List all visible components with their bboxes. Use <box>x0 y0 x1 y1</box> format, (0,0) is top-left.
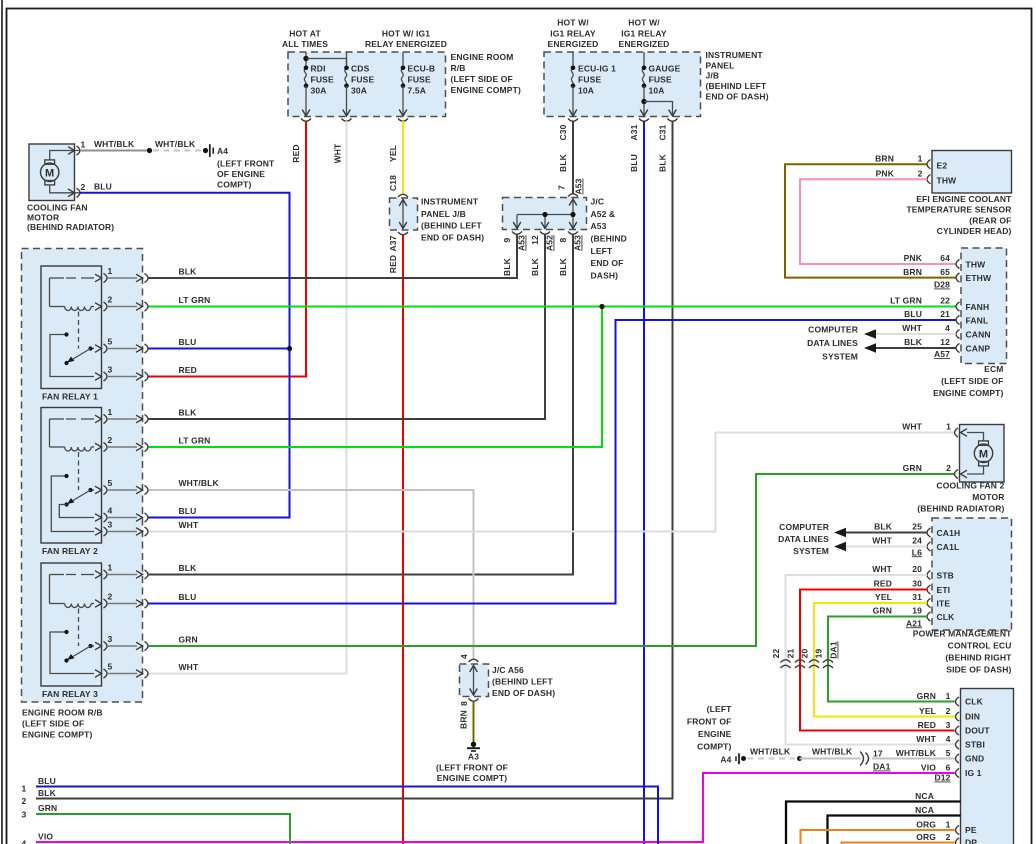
svg-text:R/B: R/B <box>451 63 466 73</box>
svg-text:GRN: GRN <box>179 635 198 645</box>
svg-text:WHT: WHT <box>872 536 892 546</box>
svg-text:RED: RED <box>291 144 301 162</box>
wire WHT CANN <box>876 333 956 335</box>
motor pin 1 connector <box>68 147 75 155</box>
svg-text:65: 65 <box>940 267 950 277</box>
svg-text:RED: RED <box>918 720 936 730</box>
svg-text:SIDE OF DASH): SIDE OF DASH) <box>946 665 1011 675</box>
svg-text:BRN: BRN <box>875 154 894 164</box>
svg-text:ENGINE COMPT): ENGINE COMPT) <box>437 773 507 783</box>
svg-text:12: 12 <box>940 337 950 347</box>
svg-text:TEMPERATURE SENSOR: TEMPERATURE SENSOR <box>906 205 1011 215</box>
wire WHT/BLK motor pin 1 to splice <box>80 150 150 152</box>
ground splice A4 (top) <box>203 148 208 153</box>
svg-text:FUSE: FUSE <box>311 75 334 85</box>
svg-text:EFI ENGINE COOLANT: EFI ENGINE COOLANT <box>916 194 1012 204</box>
svg-text:GAUGE: GAUGE <box>649 64 681 74</box>
svg-text:CLK: CLK <box>937 612 956 622</box>
wire BLU fan relay 1 pin 5 <box>149 348 290 350</box>
svg-text:MOTOR: MOTOR <box>27 212 59 222</box>
svg-text:WHT: WHT <box>872 564 892 574</box>
connector A37 cup <box>398 232 408 235</box>
svg-text:BLU: BLU <box>94 182 112 192</box>
wire RDI-CDS branch <box>306 59 347 68</box>
svg-text:2: 2 <box>946 463 951 473</box>
svg-text:MOTOR: MOTOR <box>972 492 1004 502</box>
svg-text:GRN: GRN <box>903 463 922 473</box>
svg-text:FANL: FANL <box>966 315 989 325</box>
svg-text:COMPT): COMPT) <box>217 179 251 189</box>
svg-text:DATA LINES: DATA LINES <box>807 338 858 348</box>
svg-text:IG1 RELAY: IG1 RELAY <box>550 28 596 38</box>
svg-text:PNK: PNK <box>904 253 923 263</box>
svg-text:PNK: PNK <box>876 169 895 179</box>
svg-text:C31: C31 <box>658 124 668 140</box>
svg-text:END OF DASH): END OF DASH) <box>492 688 555 698</box>
svg-text:COOLING FAN 2: COOLING FAN 2 <box>936 481 1004 491</box>
svg-text:GRN: GRN <box>917 691 936 701</box>
fuse CDS 30A <box>346 52 348 68</box>
svg-text:ECU-B: ECU-B <box>408 64 436 74</box>
svg-text:2: 2 <box>946 706 951 716</box>
svg-text:ENERGIZED: ENERGIZED <box>619 39 670 49</box>
svg-text:64: 64 <box>940 253 950 263</box>
svg-text:FUSE: FUSE <box>578 75 601 85</box>
svg-text:1: 1 <box>946 820 951 830</box>
junction connector J/C A52 & A53 <box>503 198 587 230</box>
wire WHT CA1L <box>846 546 927 548</box>
svg-text:SYSTEM: SYSTEM <box>793 546 829 556</box>
fuse RDI 30A <box>305 52 307 68</box>
svg-text:ITE: ITE <box>937 598 951 608</box>
inline connector 17 DA1 <box>860 752 864 766</box>
wire BLK C31 from GAUGE fuse to left edge row 2 <box>36 121 673 799</box>
svg-text:D28: D28 <box>934 280 950 290</box>
svg-text:(REAR OF: (REAR OF <box>969 215 1011 225</box>
svg-text:30: 30 <box>912 579 922 589</box>
svg-text:CONTROL ECU: CONTROL ECU <box>948 641 1012 651</box>
svg-text:END OF: END OF <box>591 258 624 268</box>
svg-text:BLU: BLU <box>179 337 197 347</box>
svg-text:E2: E2 <box>937 161 948 171</box>
svg-text:LT GRN: LT GRN <box>179 436 211 446</box>
svg-text:FRONT OF: FRONT OF <box>687 717 732 727</box>
wire BLU fan relay 3 pin 2 to ECM FANL <box>149 320 957 604</box>
svg-text:WHT/BLK: WHT/BLK <box>896 748 937 758</box>
svg-text:DIN: DIN <box>965 712 980 722</box>
svg-text:BLU: BLU <box>179 592 197 602</box>
svg-text:WHT: WHT <box>902 323 922 333</box>
svg-text:CYLINDER HEAD): CYLINDER HEAD) <box>937 226 1012 236</box>
svg-text:1: 1 <box>108 266 113 276</box>
ECM pin 64 THW <box>956 259 960 268</box>
wire WHT/BLK connector 17 to D12 GND <box>872 758 955 760</box>
svg-text:WHT: WHT <box>333 143 343 163</box>
svg-text:1: 1 <box>946 422 951 432</box>
wire BLU A31 from GAUGE fuse to page bottom <box>643 121 645 844</box>
svg-text:5: 5 <box>108 478 113 488</box>
svg-text:4: 4 <box>22 839 27 844</box>
svg-text:VIO: VIO <box>38 832 53 842</box>
svg-text:LT GRN: LT GRN <box>890 296 922 306</box>
svg-text:DA1: DA1 <box>873 762 891 772</box>
wire BRN J/C A56 to ground A3 <box>473 701 475 742</box>
svg-text:21: 21 <box>940 309 950 319</box>
svg-text:2: 2 <box>108 592 113 602</box>
svg-text:WHT: WHT <box>179 662 199 672</box>
D12 pin 2 DP <box>956 838 960 844</box>
svg-text:YEL: YEL <box>919 706 936 716</box>
sensor EFI ENGINE COOLANT TEMPERATURE SENSOR box <box>932 151 1012 194</box>
svg-text:20: 20 <box>800 649 810 659</box>
svg-text:4: 4 <box>108 506 113 516</box>
motor COOLING FAN 2 MOTOR box <box>960 425 1005 483</box>
svg-text:7: 7 <box>557 185 567 190</box>
svg-text:BLU: BLU <box>38 776 56 786</box>
svg-text:PANEL: PANEL <box>706 60 735 70</box>
svg-text:HOT W/ IG1: HOT W/ IG1 <box>382 29 430 39</box>
svg-text:5: 5 <box>946 748 951 758</box>
svg-text:BLU: BLU <box>629 154 639 172</box>
svg-text:9: 9 <box>502 237 512 242</box>
wire BLK NCA row 2 <box>828 816 961 844</box>
svg-text:1: 1 <box>81 140 86 150</box>
svg-text:BRN: BRN <box>903 267 922 277</box>
svg-text:FUSE: FUSE <box>408 75 431 85</box>
svg-text:ENGINE ROOM R/B: ENGINE ROOM R/B <box>22 708 103 718</box>
svg-text:ECM: ECM <box>984 364 1003 374</box>
wire BLK NCA row 1 <box>786 802 961 844</box>
motor pin 2 connector <box>68 189 75 197</box>
svg-text:CANP: CANP <box>966 343 991 353</box>
svg-text:NCA: NCA <box>915 791 934 801</box>
svg-text:BLK: BLK <box>558 257 568 276</box>
D12 pin 3 DOUT <box>956 726 960 735</box>
svg-text:J/C A56: J/C A56 <box>492 665 524 675</box>
svg-text:THW: THW <box>937 176 958 186</box>
svg-text:WHT/BLK: WHT/BLK <box>94 139 135 149</box>
wire YEL ITE to connector 20 and pin 2 DIN <box>814 603 955 717</box>
node J/C dot 2 <box>570 212 575 217</box>
svg-text:HOT W/: HOT W/ <box>628 18 660 28</box>
svg-text:GRN: GRN <box>38 803 57 813</box>
svg-text:A4: A4 <box>720 754 731 764</box>
svg-text:J/C: J/C <box>591 197 605 207</box>
svg-text:IG 1: IG 1 <box>965 768 982 778</box>
svg-text:WHT/BLK: WHT/BLK <box>179 478 220 488</box>
arrow to computer data lines (CANN) <box>864 329 876 339</box>
D12 pin 6 IG 1 <box>956 768 960 777</box>
svg-text:19: 19 <box>814 649 824 659</box>
svg-text:22: 22 <box>940 296 950 306</box>
ECM pin 12 CANP <box>956 343 960 352</box>
svg-text:HOT AT: HOT AT <box>289 29 321 39</box>
svg-text:RDI: RDI <box>311 64 326 74</box>
wire WHT/BLK dashed to A4 <box>153 150 203 152</box>
svg-text:DATA LINES: DATA LINES <box>778 534 829 544</box>
PM ECU pin 24 CA1L <box>927 542 931 551</box>
svg-text:2: 2 <box>108 435 113 445</box>
svg-text:31: 31 <box>912 592 922 602</box>
svg-text:30A: 30A <box>311 86 327 96</box>
svg-text:12: 12 <box>530 235 540 245</box>
svg-text:M: M <box>979 448 988 460</box>
svg-text:OF ENGINE: OF ENGINE <box>217 169 265 179</box>
node splice WHT/BLK <box>147 148 152 153</box>
arrow to computer data lines (CA1H) <box>834 528 846 538</box>
ground A3 <box>471 742 476 747</box>
wire WHT/BLK dashed from A4 to splice <box>748 758 796 760</box>
svg-text:A21: A21 <box>906 618 922 628</box>
svg-text:NCA: NCA <box>915 805 934 815</box>
svg-text:VIO: VIO <box>921 763 936 773</box>
svg-text:1: 1 <box>108 563 113 573</box>
fuse block INSTRUMENT PANEL J/B (top) <box>544 52 701 117</box>
svg-text:2: 2 <box>22 796 27 806</box>
svg-text:RELAY ENERGIZED: RELAY ENERGIZED <box>365 39 447 49</box>
svg-text:2: 2 <box>81 182 86 192</box>
svg-text:19: 19 <box>912 606 922 616</box>
svg-text:A57: A57 <box>934 349 950 359</box>
svg-text:(BEHIND RADIATOR): (BEHIND RADIATOR) <box>917 503 1004 513</box>
svg-text:WHT/BLK: WHT/BLK <box>750 747 791 757</box>
svg-text:(LEFT SIDE OF: (LEFT SIDE OF <box>451 74 513 84</box>
PM ECU pin 25 CA1H <box>927 528 931 537</box>
svg-text:C18: C18 <box>388 175 398 191</box>
svg-text:ORG: ORG <box>916 832 936 842</box>
wire RED ETI to connector 21 and pin 3 DOUT <box>800 590 955 731</box>
svg-text:ALL TIMES: ALL TIMES <box>282 39 328 49</box>
svg-text:(BEHIND RADIATOR): (BEHIND RADIATOR) <box>27 222 114 232</box>
wire LT GRN branch to fan relay 2 pin 2 <box>149 307 603 448</box>
wire GRN CLK to connector 19 and pin 1 CLK <box>828 617 955 702</box>
D12 pin 1 PE <box>956 825 960 834</box>
svg-text:THW: THW <box>966 259 987 269</box>
svg-text:(LEFT FRONT OF: (LEFT FRONT OF <box>436 762 508 772</box>
svg-text:(BEHIND: (BEHIND <box>591 234 627 244</box>
PM ECU pin 30 ETI <box>927 585 931 594</box>
svg-text:WHT/BLK: WHT/BLK <box>812 747 853 757</box>
wire BLK J/C pin 9 to fan relay 1 pin 1 <box>149 234 518 278</box>
relay block ENGINE ROOM R/B dashed box <box>22 249 143 703</box>
fuse block ENGINE ROOM R/B (top) <box>288 52 446 117</box>
node junction under GAUGE fuse <box>641 99 646 104</box>
svg-text:DA1: DA1 <box>829 641 839 659</box>
D12 pin 5 GND <box>956 754 960 763</box>
PM ECU pin 20 STB <box>927 570 931 579</box>
svg-text:3: 3 <box>22 810 27 820</box>
svg-text:20: 20 <box>912 564 922 574</box>
ECM pin 65 ETHW <box>956 273 960 282</box>
svg-text:INSTRUMENT: INSTRUMENT <box>706 50 764 60</box>
svg-text:(LEFT: (LEFT <box>707 704 732 714</box>
svg-text:C30: C30 <box>558 124 568 140</box>
svg-text:POWER MANAGEMENT: POWER MANAGEMENT <box>913 629 1012 639</box>
wire WHT STB to connector 22 and pin 4 STBI <box>786 575 955 745</box>
svg-text:BLK: BLK <box>179 267 198 277</box>
connector cups under J/C A52 & A53 <box>512 232 522 235</box>
svg-text:4: 4 <box>945 323 950 333</box>
PM ECU pin 19 CLK <box>927 612 931 621</box>
svg-text:21: 21 <box>786 649 796 659</box>
svg-text:A31: A31 <box>629 124 639 140</box>
svg-text:CLK: CLK <box>965 697 984 707</box>
svg-text:DASH): DASH) <box>591 271 619 281</box>
svg-text:PANEL J/B: PANEL J/B <box>421 209 466 219</box>
wire BLK C30 from ECU-IG 1 fuse to J/C A53 pin 7 <box>572 121 574 194</box>
svg-text:(LEFT SIDE OF: (LEFT SIDE OF <box>22 719 84 729</box>
connector pin 7 A53 dome <box>568 194 578 197</box>
connector D12 box <box>961 689 1014 844</box>
svg-text:WHT: WHT <box>902 422 922 432</box>
D12 pin 4 STBI <box>956 740 960 749</box>
svg-text:ORG: ORG <box>916 820 936 830</box>
wire YEL from ECU-B fuse to C18 <box>402 121 404 194</box>
svg-text:GND: GND <box>965 754 984 764</box>
svg-text:COMPUTER: COMPUTER <box>808 325 858 335</box>
junction connector J/C A56 <box>469 659 479 662</box>
svg-text:WHT/BLK: WHT/BLK <box>155 139 196 149</box>
wire ORG D12 PE <box>801 830 955 844</box>
svg-text:3: 3 <box>946 720 951 730</box>
svg-text:YEL: YEL <box>388 145 398 162</box>
wire GRN fan relay 3 pin 3 to cooling fan 2 pin 2 <box>149 474 956 646</box>
svg-text:COOLING FAN: COOLING FAN <box>27 203 88 213</box>
wire BLK CA1H <box>846 532 927 534</box>
svg-text:A4: A4 <box>217 146 228 156</box>
svg-text:10A: 10A <box>649 86 665 96</box>
sensor pin 2 THW <box>927 175 931 184</box>
wire BRN sensor E2 to ECM ETHW <box>785 164 956 277</box>
svg-text:CDS: CDS <box>351 64 370 74</box>
svg-text:GRN: GRN <box>873 606 892 616</box>
fuse ECU-IG 1 10A <box>572 52 574 68</box>
svg-text:ENERGIZED: ENERGIZED <box>548 39 599 49</box>
wire WHT/BLK fan relay 2 pin 5 to J/C A56 <box>149 490 474 659</box>
svg-text:(LEFT FRONT: (LEFT FRONT <box>217 158 275 168</box>
svg-text:4: 4 <box>946 734 951 744</box>
svg-text:BLK: BLK <box>558 153 568 172</box>
svg-text:DP: DP <box>965 838 977 844</box>
svg-text:L6: L6 <box>912 547 922 557</box>
wire WHT from CDS fuse to fan relay 3 pin 5 <box>149 121 347 674</box>
wire WHT/BLK splice to connector 17 <box>800 758 862 760</box>
connector C18 dome <box>398 194 408 197</box>
motor 2 pin 1 connector <box>961 429 968 437</box>
svg-text:25: 25 <box>912 522 922 532</box>
svg-text:STBI: STBI <box>965 740 985 750</box>
svg-text:22: 22 <box>771 649 781 659</box>
svg-text:BRN: BRN <box>459 710 469 729</box>
svg-text:2: 2 <box>108 295 113 305</box>
svg-text:A53: A53 <box>574 178 584 194</box>
relay FAN RELAY 2 <box>41 408 102 544</box>
svg-text:BLK: BLK <box>904 337 923 347</box>
svg-text:(BEHIND RIGHT: (BEHIND RIGHT <box>945 653 1012 663</box>
fuse ECU-B 7.5A <box>402 52 404 68</box>
PM ECU pin 31 ITE <box>927 598 931 607</box>
svg-text:BLK: BLK <box>874 522 893 532</box>
svg-text:CANN: CANN <box>966 329 991 339</box>
wire LT GRN fan relay 1 pin 2 to ECM FANH <box>149 306 957 308</box>
svg-text:1: 1 <box>946 691 951 701</box>
wire BLK J/C pin 8 to fan relay 3 pin 1 <box>149 234 574 575</box>
svg-text:FUSE: FUSE <box>649 75 672 85</box>
svg-text:4: 4 <box>459 654 469 659</box>
wire WHT fan relay 2 pin 3 to cooling fan 2 pin 1 <box>149 433 956 532</box>
svg-text:6: 6 <box>946 763 951 773</box>
wire RED from RDI fuse to fan relay 1 pin 3 <box>149 121 307 377</box>
svg-text:INSTRUMENT: INSTRUMENT <box>421 197 479 207</box>
svg-text:CA1H: CA1H <box>937 528 961 538</box>
node splice WHT/BLK bottom <box>797 756 802 761</box>
connector cups under instrument panel J/B <box>568 119 578 122</box>
svg-text:SYSTEM: SYSTEM <box>822 352 858 362</box>
svg-text:FAN RELAY 1: FAN RELAY 1 <box>42 392 98 402</box>
svg-text:FAN RELAY 3: FAN RELAY 3 <box>42 689 98 699</box>
ECM pin 4 CANN <box>956 329 960 338</box>
svg-text:2: 2 <box>946 832 951 842</box>
svg-text:PE: PE <box>965 825 977 835</box>
svg-text:10A: 10A <box>578 86 594 96</box>
svg-text:ECU-IG 1: ECU-IG 1 <box>578 64 616 74</box>
svg-text:1: 1 <box>108 407 113 417</box>
motor 2 M symbol <box>974 444 992 462</box>
svg-text:DOUT: DOUT <box>965 726 990 736</box>
svg-text:M: M <box>45 167 54 179</box>
wire BLU left edge row 1 <box>36 787 658 844</box>
svg-text:ENGINE COMPT): ENGINE COMPT) <box>933 388 1003 398</box>
svg-text:BLK: BLK <box>179 563 198 573</box>
svg-text:3: 3 <box>108 520 113 530</box>
wire VIO D12 IG 1 to left edge row 4 <box>36 773 955 842</box>
D12 pin 2 DIN <box>956 712 960 721</box>
connector cups under engine room R/B <box>301 119 311 122</box>
svg-text:LEFT: LEFT <box>591 246 614 256</box>
relay FAN RELAY 1 <box>41 266 102 389</box>
wire BLK J/C pin 12 to fan relay 2 pin 1 <box>149 234 546 419</box>
ECU POWER MANAGEMENT CONTROL ECU dashed box <box>932 518 1012 630</box>
svg-text:BLK: BLK <box>530 257 540 276</box>
svg-text:BLU: BLU <box>179 506 197 516</box>
arrow to computer data lines (CANP) <box>864 343 876 353</box>
svg-text:7.5A: 7.5A <box>408 86 427 96</box>
svg-text:WHT: WHT <box>179 520 199 530</box>
svg-text:BLK: BLK <box>658 153 668 172</box>
page border outer line <box>1 0 3 844</box>
D12 pin 1 CLK <box>956 697 960 706</box>
svg-text:BLU: BLU <box>904 309 922 319</box>
svg-text:COMPUTER: COMPUTER <box>779 522 829 532</box>
svg-text:END OF DASH): END OF DASH) <box>706 91 769 101</box>
svg-text:BLK: BLK <box>38 788 57 798</box>
node junction LT GRN <box>599 304 604 309</box>
svg-text:2: 2 <box>918 169 923 179</box>
svg-text:ENGINE ROOM: ENGINE ROOM <box>451 52 514 62</box>
fuse GAUGE 10A <box>643 52 645 68</box>
ECU ECM dashed box <box>961 248 1007 364</box>
wire BLK CANP <box>876 347 956 349</box>
node J/C dot 1 <box>542 212 547 217</box>
svg-text:ENGINE COMPT): ENGINE COMPT) <box>22 730 92 740</box>
svg-text:IG1 RELAY: IG1 RELAY <box>621 28 667 38</box>
svg-text:A53: A53 <box>591 221 607 231</box>
svg-text:BLK: BLK <box>179 408 198 418</box>
ECM pin 21 FANL <box>956 315 960 324</box>
svg-text:5: 5 <box>108 662 113 672</box>
svg-text:17: 17 <box>873 749 883 759</box>
node junction above RDI fuse <box>303 56 308 61</box>
